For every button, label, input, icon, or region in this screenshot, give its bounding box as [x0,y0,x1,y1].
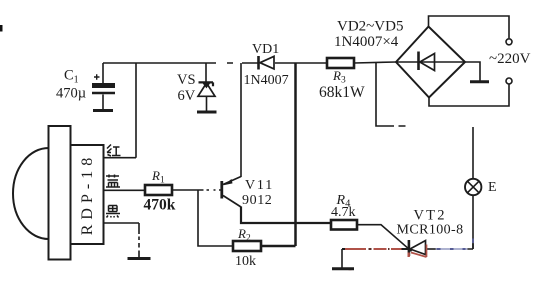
svg-text:68k1W: 68k1W [319,84,365,101]
wire top rail left [103,62,258,64]
svg-text:10k: 10k [235,254,256,269]
svg-text:VD2~VD5: VD2~VD5 [337,19,403,35]
resistor R1 [144,168,176,214]
node red pin label [107,145,121,157]
wire red pin to rail riser [104,63,137,158]
svg-text:V11: V11 [245,178,274,193]
bridge rectifier VD2-VD5 [334,19,465,98]
svg-text:E: E [488,180,497,195]
svg-text:VS: VS [177,72,196,88]
node black pin label [106,206,120,218]
wire SCR anode to lamp [468,244,474,250]
svg-text:VD1: VD1 [252,42,279,57]
resistor R4 [331,193,357,230]
resistor R3 [319,58,365,101]
ground [470,80,489,83]
thyristor VT2 [397,208,464,257]
wire R4 to gate [357,225,412,252]
transistor V11 [222,177,274,209]
svg-text:9012: 9012 [242,193,272,208]
wire bridge right to ground [465,62,480,81]
AC source ~220V [429,16,531,106]
wire cathode to ground [341,249,343,268]
wire collector to R4 [241,207,331,224]
ground [197,111,217,114]
svg-text:~220V: ~220V [489,51,531,67]
node blue pin label [106,175,120,188]
zener diode VS [177,63,215,111]
svg-text:RDP-18: RDP-18 [79,153,96,235]
wire blue pin to R1 [104,189,146,191]
ground [332,267,354,270]
wire top rail R3 to bridge [354,62,396,63]
wire R1 to base [172,189,221,191]
svg-text:1N4007×4: 1N4007×4 [334,34,399,50]
wire top rail VD1 to R3 [275,62,327,64]
svg-text:VT2: VT2 [414,208,447,224]
wire black pin to ground [104,223,140,257]
wire SCR anode dashes (blue) [436,239,474,250]
svg-text:6V: 6V [178,88,196,104]
svg-text:4.7k: 4.7k [331,205,356,220]
sensor RDP-18 [13,126,104,260]
wire emitter riser [240,63,242,177]
ground [93,109,113,112]
svg-text:470k: 470k [144,197,176,214]
ground [128,257,151,260]
capacitor C1 [56,63,115,109]
resistor R2 [233,226,261,269]
wire SCR cathode dashdot (red) [342,248,408,250]
wire R2 to rail riser [261,63,296,246]
lamp E [465,127,497,249]
svg-text:470µ: 470µ [56,86,86,102]
wire lamp branch top [376,63,406,126]
svg-text:MCR100-8: MCR100-8 [397,223,464,238]
page mark [0,25,3,32]
diode VD1 [244,42,289,88]
thyristor red ghost [349,245,427,270]
wire base node to R2 [198,190,233,246]
svg-text:1N4007: 1N4007 [244,73,289,88]
